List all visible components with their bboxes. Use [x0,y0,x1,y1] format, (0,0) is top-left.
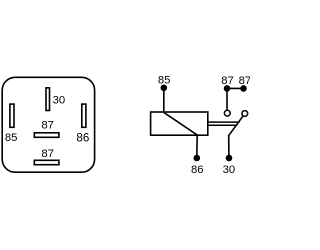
pin slot 87 middle [34,133,59,138]
actuator link double line bottom [208,124,237,126]
stationary contact circle (87) [224,110,230,116]
wire 85 to coil [163,88,165,112]
pin slot 87 bottom [34,160,59,164]
svg-text:85: 85 [5,132,18,144]
svg-text:30: 30 [223,164,236,176]
switch arm diagonal [229,116,243,136]
pivot contact circle [242,111,248,117]
svg-text:30: 30 [53,94,66,106]
svg-text:87: 87 [41,148,54,160]
coil diagonal [164,112,198,135]
terminal dot 86 [194,155,201,162]
terminal dot 87 right [240,85,247,92]
wire arm to 30 [228,135,230,156]
terminal dot 85 [161,85,168,92]
pin slot 30 [46,88,50,111]
pin slot 85 [10,104,14,127]
terminal dot 87 left [224,85,231,92]
coil box K1 [151,112,208,135]
pin slot 86 [82,104,86,127]
wire coil to 86 [196,135,198,156]
wire joining 87 dots [227,87,244,89]
svg-text:86: 86 [191,164,204,176]
svg-text:86: 86 [76,131,89,144]
wire 87 to contact [226,89,228,110]
actuator link double line top [208,121,240,123]
relay socket body (pin layout view) [2,77,94,172]
svg-text:87: 87 [41,119,54,131]
terminal dot 30 [226,155,233,162]
